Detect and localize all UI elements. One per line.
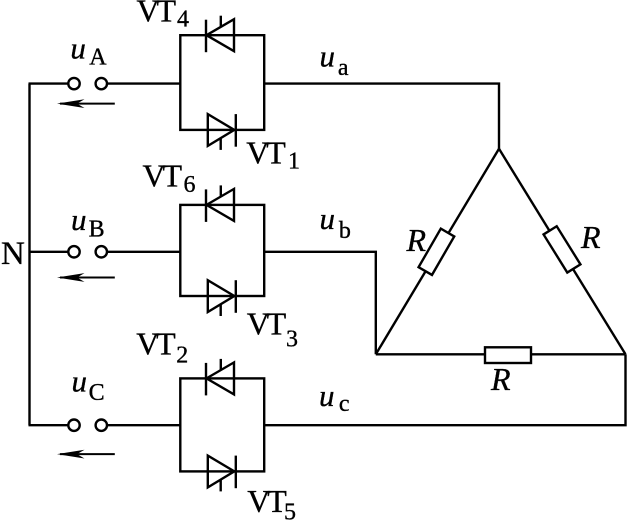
svg-text:1: 1 bbox=[288, 149, 300, 175]
resistor R right (delta right edge) bbox=[544, 226, 581, 272]
svg-text:VT: VT bbox=[143, 158, 183, 194]
svg-text:u: u bbox=[319, 378, 335, 413]
wire neutral bus N vertical bbox=[28, 84, 30, 426]
terminal circle phase B right bbox=[96, 246, 107, 257]
svg-text:u: u bbox=[320, 201, 336, 236]
thyristor VT2 symbol (top of block C, pointing left) bbox=[206, 359, 234, 396]
wire ua from block A to delta apex bbox=[264, 84, 499, 149]
svg-text:VT: VT bbox=[247, 305, 287, 341]
wire phase C terminal to block bbox=[107, 424, 180, 426]
wire ub from block B to delta bottom-left node bbox=[264, 252, 376, 354]
terminal circle phase B left bbox=[68, 246, 79, 257]
thyristor VT6 symbol (top of block B, pointing left) bbox=[206, 185, 234, 222]
wire phase A terminal to block bbox=[107, 82, 180, 84]
wire phase B terminal to block bbox=[107, 251, 180, 253]
terminal circle phase A right bbox=[96, 78, 107, 89]
current direction arrow phase A bbox=[57, 99, 115, 108]
svg-text:2: 2 bbox=[176, 342, 188, 368]
svg-text:R: R bbox=[490, 361, 511, 397]
svg-text:4: 4 bbox=[177, 6, 189, 32]
thyristor VT1 symbol (bottom of block A, pointing right) bbox=[208, 114, 236, 150]
svg-text:a: a bbox=[338, 55, 349, 81]
svg-text:6: 6 bbox=[184, 172, 196, 198]
wire phase B from bus to terminal bbox=[29, 251, 69, 253]
thyristor VT4 symbol (top of block A, pointing left) bbox=[206, 16, 234, 53]
current direction arrow phase B bbox=[57, 273, 115, 282]
svg-text:R: R bbox=[580, 219, 601, 255]
svg-text:5: 5 bbox=[284, 499, 296, 520]
wire delta bottom edge bbox=[376, 353, 626, 355]
svg-text:c: c bbox=[339, 391, 350, 417]
svg-text:u: u bbox=[72, 364, 88, 399]
svg-text:B: B bbox=[89, 216, 105, 242]
thyristor block B outline bbox=[180, 205, 264, 296]
svg-text:u: u bbox=[71, 202, 87, 237]
thyristor block A outline bbox=[180, 35, 264, 130]
thyristor VT3 symbol (bottom of block B, pointing right) bbox=[208, 280, 236, 316]
wire delta right edge bbox=[499, 149, 626, 354]
svg-text:u: u bbox=[320, 39, 336, 74]
wire uc from block C to delta bottom-right node bbox=[264, 354, 625, 425]
resistor R left (delta left edge) bbox=[419, 229, 455, 275]
terminal circle phase C left bbox=[68, 420, 79, 431]
thyristor VT5 symbol (bottom of block C, pointing right) bbox=[208, 456, 236, 492]
wire phase C from bus to terminal bbox=[29, 424, 69, 426]
current direction arrow phase C bbox=[57, 450, 115, 459]
svg-text:A: A bbox=[89, 45, 107, 71]
svg-text:VT: VT bbox=[136, 326, 176, 362]
svg-text:VT: VT bbox=[247, 483, 287, 519]
resistor R bottom (delta bottom edge) bbox=[485, 347, 531, 363]
terminal circle phase C right bbox=[96, 420, 107, 431]
svg-text:3: 3 bbox=[286, 327, 298, 353]
wire phase A from bus to terminal bbox=[29, 82, 69, 84]
thyristor block C outline bbox=[180, 378, 264, 471]
terminal circle phase A left bbox=[68, 78, 79, 89]
svg-text:VT: VT bbox=[246, 135, 286, 171]
svg-text:VT: VT bbox=[137, 0, 177, 29]
svg-text:b: b bbox=[339, 218, 351, 244]
svg-text:C: C bbox=[89, 380, 105, 406]
svg-text:N: N bbox=[1, 236, 25, 272]
wire delta left edge bbox=[376, 149, 499, 354]
svg-text:R: R bbox=[406, 222, 427, 258]
svg-text:u: u bbox=[70, 30, 86, 65]
